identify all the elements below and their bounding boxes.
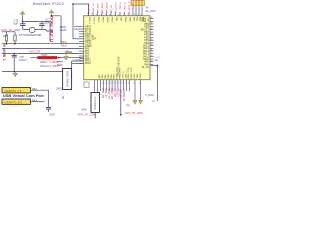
- wire crystal top bus: [23, 16, 54, 42]
- svg-text:11: 11: [131, 14, 133, 16]
- svg-text:PA2: PA2: [32, 88, 37, 91]
- svg-text:40: 40: [151, 39, 153, 41]
- svg-text:GND: GND: [81, 108, 87, 112]
- ground arrow bottom 1: [133, 100, 137, 104]
- svg-text:USB Virtual Com Port: USB Virtual Com Port: [3, 93, 45, 98]
- svg-text:SPI_SCK: SPI_SCK: [97, 3, 99, 13]
- svg-text:JTMS: JTMS: [60, 28, 67, 32]
- svg-text:PB14: PB14: [140, 72, 142, 78]
- svg-text:T2_CK: T2_CK: [141, 66, 149, 69]
- connector USB ESD box: [91, 93, 100, 113]
- svg-text:T_JTDO: T_JTDO: [113, 89, 115, 98]
- svg-text:PB11: PB11: [129, 17, 131, 23]
- svg-text:31: 31: [128, 83, 130, 85]
- svg-text:STM32F103CBT6: STM32F103CBT6: [118, 56, 121, 76]
- svg-text:100nF: 100nF: [19, 58, 27, 62]
- wire swd box right to IC row1: [72, 60, 84, 62]
- ground arrow down tan: [64, 54, 68, 61]
- capacitor C16: [20, 22, 25, 30]
- svg-text:8pF: 8pF: [14, 21, 19, 25]
- svg-text:STM32 SWD: STM32 SWD: [66, 71, 70, 87]
- svg-text:PB12: PB12: [97, 17, 99, 23]
- svg-text:21: 21: [99, 83, 101, 85]
- IC top pin stubs: [89, 6, 143, 16]
- wire PA0 row: [2, 47, 84, 49]
- wire VSSA row: [2, 43, 84, 45]
- svg-text:T_NRST_O: T_NRST_O: [129, 1, 131, 13]
- svg-text:SB20: SB20: [60, 25, 67, 29]
- svg-text:VDD_TGT: VDD_TGT: [88, 2, 90, 13]
- svg-text:5: 5: [105, 14, 106, 16]
- resistor R40: [5, 35, 7, 41]
- ground symbol nrst: [13, 72, 18, 78]
- node junction at 73,4: [72, 3, 74, 5]
- wire top pin 1 drop: [88, 4, 90, 16]
- solder bridge box below IC left: [84, 82, 89, 87]
- svg-text:7: 7: [114, 14, 115, 16]
- net labels in RN red vertical: [132, 0, 144, 5]
- svg-text:SWCLK: SWCLK: [40, 64, 49, 68]
- svg-text:5A: 5A: [145, 6, 148, 10]
- svg-text:46: 46: [151, 23, 153, 25]
- svg-text:X3 NX3215SA 8M: X3 NX3215SA 8M: [19, 33, 42, 37]
- svg-text:PB13: PB13: [102, 17, 104, 23]
- wire nrst horizontal: [2, 71, 63, 73]
- wire SWIM down: [120, 91, 122, 114]
- svg-text:USB_DP: USB_DP: [104, 89, 106, 99]
- svg-text:T_JRST: T_JRST: [116, 89, 118, 98]
- svg-text:USBLC6-2: USBLC6-2: [93, 96, 97, 110]
- svg-text:T_SWD: T_SWD: [50, 64, 59, 68]
- wire pullup to 61: [52, 16, 62, 44]
- svg-text:+3V3_ST_LINK: +3V3_ST_LINK: [77, 112, 96, 116]
- svg-text:T_JRST_N: T_JRST_N: [124, 2, 126, 13]
- svg-text:DP: DP: [152, 101, 156, 103]
- svg-text:42: 42: [151, 33, 153, 35]
- node junction 51.5,15.8: [51, 15, 53, 17]
- IC U5 STM32F103CBT6: [84, 16, 150, 80]
- IC bottom pin stubs: [95, 80, 141, 101]
- wire swd box top bend: [71, 61, 73, 69]
- svg-text:26: 26: [113, 83, 115, 85]
- svg-text:Board Ident: PC13=0: Board Ident: PC13=0: [33, 2, 64, 6]
- IC right pin stubs: [150, 19, 153, 65]
- svg-text:USB_DM: USB_DM: [101, 89, 103, 99]
- svg-text:LED_STLK: LED_STLK: [115, 1, 117, 12]
- svg-text:1: 1: [87, 14, 88, 16]
- svg-text:34: 34: [151, 55, 153, 57]
- IC right pin names: [141, 18, 150, 70]
- node junction 14.2,53.6: [13, 53, 15, 55]
- resistor R41: [14, 35, 16, 41]
- svg-text:R40: R40: [3, 34, 8, 38]
- wire USB_DP from right pin: [150, 66, 157, 101]
- svg-text:8: 8: [118, 14, 119, 16]
- svg-text:T_CK: T_CK: [154, 57, 160, 59]
- wire SB row: [31, 57, 84, 59]
- svg-text:32: 32: [133, 83, 135, 85]
- svg-text:SB15: SB15: [42, 54, 49, 57]
- svg-text:UART_RX: UART_RX: [110, 89, 113, 100]
- svg-text:SPI_MOSI: SPI_MOSI: [106, 2, 108, 13]
- power arrow left tan: [65, 50, 73, 53]
- wire swd box right to IC row2: [72, 62, 84, 64]
- svg-text:9: 9: [123, 14, 124, 16]
- svg-text:VSS_2: VSS_2: [122, 71, 124, 79]
- svg-text:UART_TX: UART_TX: [107, 89, 110, 100]
- svg-text:24: 24: [108, 83, 110, 85]
- svg-text:32: 32: [151, 60, 153, 62]
- svg-text:T_SWIM_IN: T_SWIM_IN: [122, 89, 124, 102]
- IC top pin names vertical: [88, 17, 144, 25]
- net labels top red vertical: [88, 1, 131, 13]
- svg-text:PB15: PB15: [111, 17, 113, 23]
- svg-text:USART2_RX: USART2_RX: [4, 100, 22, 104]
- svg-text:LED_ST: LED_ST: [119, 89, 121, 98]
- svg-text:VSS_1: VSS_1: [93, 17, 95, 25]
- capacitor C15 nrst: [12, 54, 17, 72]
- pin numbers top edge: [87, 14, 142, 16]
- svg-text:6: 6: [109, 14, 110, 16]
- svg-text:T_JTMS_SWDIO: T_JTMS_SWDIO: [50, 15, 54, 40]
- node junction 6.5,48.4: [6, 43, 8, 45]
- wire swd box bottom stub: [62, 96, 64, 99]
- wire PC13 vertical from board-ident: [72, 4, 74, 39]
- ground arrow bottom 2: [138, 100, 142, 104]
- svg-text:36: 36: [151, 50, 153, 52]
- svg-text:VSS: VSS: [134, 74, 136, 79]
- node junction 157.4,65.7: [157, 65, 159, 67]
- wire OSC_OUT to IC: [73, 38, 84, 40]
- svg-text:25: 25: [110, 83, 112, 85]
- svg-text:29: 29: [122, 83, 124, 85]
- svg-text:10: 10: [127, 14, 129, 16]
- svg-text:T_JTDO_S: T_JTDO_S: [120, 1, 122, 12]
- connector SWD box: [63, 69, 72, 90]
- crystal X3: [29, 27, 35, 32]
- header CN UART_TX yellow bar: [2, 88, 31, 93]
- svg-text:12: 12: [134, 14, 136, 16]
- wire uart tx: [31, 90, 49, 107]
- svg-text:SB14: SB14: [61, 45, 68, 48]
- wire board-ident horizontal: [73, 3, 89, 5]
- svg-text:PB10: PB10: [124, 17, 126, 23]
- svg-text:VDD_2: VDD_2: [125, 71, 127, 79]
- IC left pin stubs: [74, 27, 84, 64]
- net labels bottom red vertical: [101, 89, 124, 102]
- svg-text:PA3: PA3: [32, 100, 37, 103]
- capacitor C20 bottom: [46, 108, 51, 112]
- svg-text:TCK: TCK: [141, 0, 144, 5]
- svg-text:PB13_TDO: PB13_TDO: [131, 67, 133, 78]
- svg-text:T_NRST_IN: T_NRST_IN: [2, 43, 6, 61]
- svg-text:2: 2: [91, 14, 92, 16]
- svg-text:GND_TGT: GND_TGT: [93, 2, 95, 13]
- svg-text:4: 4: [100, 14, 101, 16]
- node junction 15,48.4: [14, 43, 16, 45]
- svg-text:U_DN8: U_DN8: [145, 93, 154, 97]
- svg-text:22: 22: [102, 83, 104, 85]
- svg-text:PB12_TCK: PB12_TCK: [128, 67, 130, 78]
- wire crystal bottom bus: [23, 30, 53, 32]
- svg-text:48: 48: [151, 17, 153, 19]
- svg-text:23: 23: [105, 83, 107, 85]
- svg-text:28: 28: [119, 83, 121, 85]
- IC left pin names: [85, 26, 97, 66]
- wire swd row1: [57, 61, 63, 63]
- power VDD arrow (SWDIO pullup): [49, 10, 54, 16]
- resistor SB link red bar: [38, 56, 58, 59]
- svg-text:SPI_MISO: SPI_MISO: [102, 2, 104, 13]
- IC bottom pin names vertical: [98, 67, 142, 78]
- wire swd row2: [57, 64, 63, 66]
- svg-text:TP1: TP1: [126, 105, 131, 108]
- node junction 58.8,57.7: [58, 57, 60, 59]
- wire usb box bottom: [94, 113, 96, 119]
- svg-text:38: 38: [151, 44, 153, 46]
- svg-text:13: 13: [137, 14, 139, 16]
- header CN UART_RX yellow bar: [2, 99, 31, 104]
- svg-text:27: 27: [116, 83, 118, 85]
- labels right edge tiny: [152, 57, 160, 103]
- pin numbers bottom edge: [99, 83, 141, 85]
- power VDD arrow (crystal): [20, 11, 25, 16]
- svg-text:VDD: VDD: [137, 73, 139, 78]
- svg-text:VDD: VDD: [49, 112, 55, 116]
- wire PA2 row: [2, 53, 84, 55]
- svg-text:+3V3_ST_LINK: +3V3_ST_LINK: [1, 28, 21, 32]
- svg-text:+3V3_ST_LINK: +3V3_ST_LINK: [124, 111, 143, 115]
- node junction crystal top: [22, 21, 24, 23]
- wire 3v3 rail: [2, 32, 15, 44]
- svg-text:14: 14: [140, 14, 142, 16]
- svg-text:SR_DN5: SR_DN5: [145, 9, 156, 13]
- svg-text:30: 30: [125, 83, 127, 85]
- svg-text:NRST: NRST: [40, 60, 47, 64]
- svg-text:GND: GND: [56, 86, 62, 90]
- svg-text:PA14: PA14: [85, 62, 91, 65]
- wire uart rx: [31, 101, 45, 103]
- svg-text:SPI_CS: SPI_CS: [111, 4, 113, 12]
- svg-text:33: 33: [139, 83, 141, 85]
- node junction 14.2,71.5: [13, 71, 15, 73]
- capacitor C17: [39, 22, 44, 30]
- svg-text:VDD_1: VDD_1: [88, 17, 90, 25]
- pin numbers right edge: [151, 17, 153, 62]
- resistor network RN top right yellow box: [131, 0, 145, 5]
- svg-text:PB14: PB14: [106, 17, 108, 23]
- svg-text:3: 3: [96, 14, 97, 16]
- svg-text:44: 44: [151, 28, 153, 30]
- svg-text:+3V3_LNK: +3V3_LNK: [28, 51, 40, 54]
